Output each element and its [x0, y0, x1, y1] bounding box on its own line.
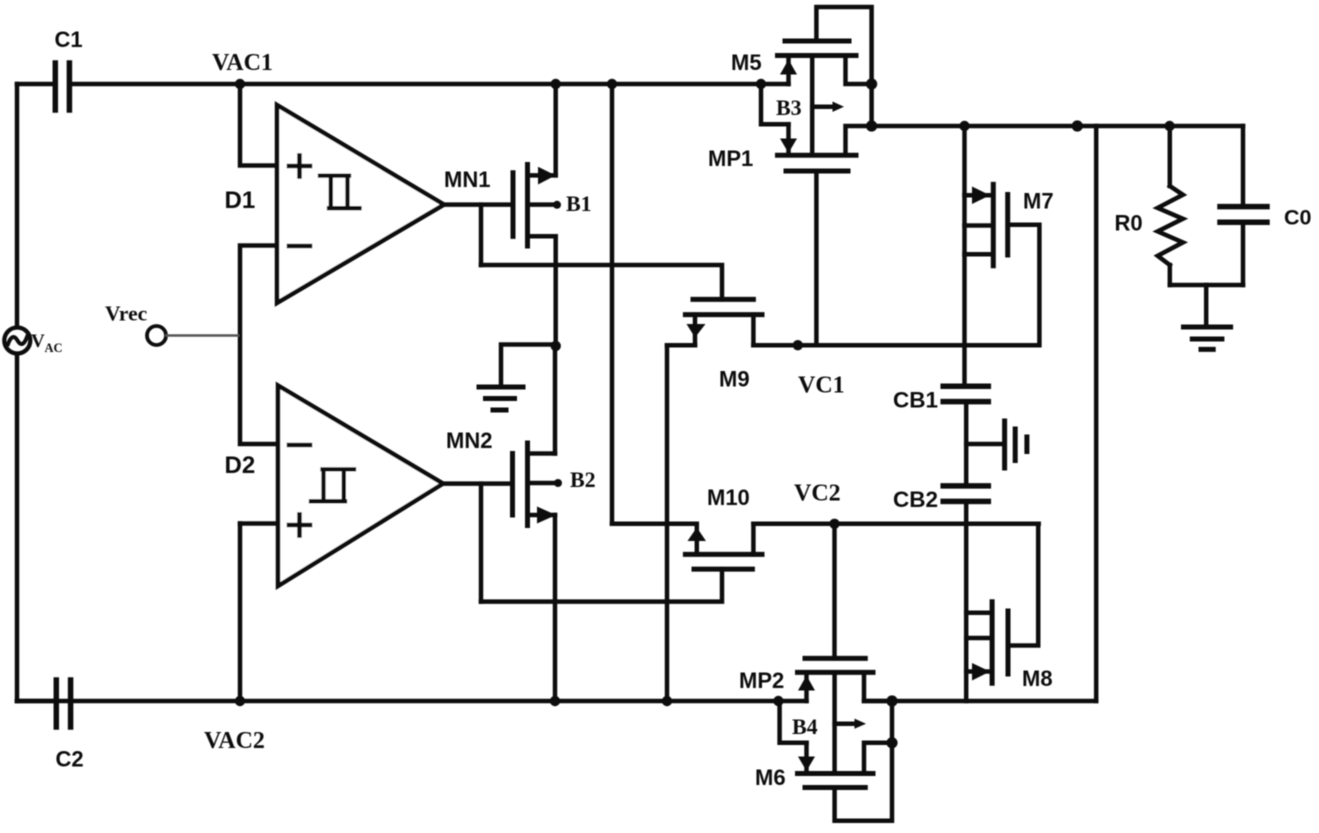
- B4 bulk line: [832, 672, 837, 773]
- transistor MP1 channel bar: [778, 153, 857, 158]
- node: rail at MN1 drain: [551, 79, 561, 89]
- D1 minus sign: [289, 244, 310, 249]
- AC source VAC circle: [4, 328, 30, 354]
- M6 gate loop: [835, 743, 892, 821]
- node VC2: [829, 519, 839, 529]
- svg-text:D2: D2: [225, 452, 256, 479]
- transistor M8 gate bar: [1006, 611, 1011, 674]
- node: rail at M10 column: [607, 79, 617, 89]
- label MN1: [444, 167, 490, 192]
- ground (R0/C0): [1184, 327, 1231, 349]
- wire: MN2 drain up to ground node: [553, 346, 558, 454]
- svg-text:C2: C2: [56, 747, 84, 772]
- label R0: [1115, 211, 1143, 236]
- wire: CB2 down to VAC2 rail: [964, 501, 969, 701]
- label B1: [566, 191, 592, 216]
- svg-text:C0: C0: [1284, 206, 1312, 230]
- svg-text:D1: D1: [225, 187, 256, 214]
- svg-text:M7: M7: [1023, 189, 1054, 214]
- M7 arrow (right): [972, 187, 990, 205]
- M10 right stub: [751, 524, 756, 555]
- transistor M10 gate bar: [694, 567, 752, 572]
- wire: VAC2 rail (right section): [864, 699, 1096, 704]
- M5 gate loop to output node: [816, 7, 871, 126]
- wire: gate branch vertical from D1 output: [479, 205, 484, 265]
- MP2 right stub: [864, 672, 892, 701]
- node VC1: [793, 340, 803, 350]
- label MP2: [739, 668, 784, 693]
- M9 right stub: [751, 315, 756, 346]
- wire: MP2 gate feed from VC2: [832, 524, 837, 659]
- transistor MN2 channel bar: [525, 443, 530, 526]
- MP2 arrow (up): [798, 676, 815, 691]
- wire: C0 bottom lead: [1241, 222, 1246, 285]
- svg-text:CB2: CB2: [893, 487, 938, 512]
- MN2 drain stub: [528, 451, 556, 456]
- svg-text:M6: M6: [755, 765, 786, 790]
- M5 left stub: [786, 59, 791, 84]
- svg-text:MN2: MN2: [446, 428, 492, 453]
- MN1 source stub: [528, 234, 556, 239]
- AC source sine symbol: [8, 337, 27, 344]
- MN1 drain arrow: [538, 167, 556, 185]
- svg-text:CB1: CB1: [893, 387, 938, 412]
- wire: ground branch: [501, 345, 556, 387]
- label D1: [225, 187, 256, 214]
- wire: gate branch vertical from D2 output: [479, 484, 484, 602]
- transistor M10 channel bar: [685, 552, 762, 557]
- M10 left stub: [695, 527, 700, 554]
- label D2: [225, 452, 256, 479]
- svg-text:VAC1: VAC1: [212, 50, 273, 76]
- wire: VAC2 rail (left section): [17, 699, 807, 704]
- transistor MP2 channel bar: [798, 670, 874, 675]
- M6 right stub: [864, 743, 892, 774]
- label MP1: [708, 146, 753, 171]
- transistor MP2 gate bar: [805, 656, 865, 661]
- capacitor C1: [55, 63, 69, 110]
- svg-text:VAC2: VAC2: [204, 728, 265, 754]
- svg-text:C1: C1: [55, 27, 83, 52]
- label VAC2: [204, 728, 265, 754]
- node: MN1 source / ground junction: [551, 341, 561, 351]
- D1 plus sign: [289, 156, 310, 177]
- wire: left loop vertical top (C1 side): [15, 84, 20, 327]
- wire: R0 bottom lead: [1168, 265, 1173, 285]
- wire: reference rail down to D2 plus input: [238, 524, 243, 702]
- wire: C0 top lead: [1241, 126, 1246, 207]
- MN2 bulk stub B2: [528, 481, 558, 486]
- label Vrec: [105, 302, 147, 326]
- label VAC (source): [31, 331, 63, 355]
- svg-text:MN1: MN1: [444, 167, 490, 192]
- comparator D1: [277, 105, 444, 303]
- node: rail at M7 column: [959, 121, 969, 131]
- M5 right stub: [846, 56, 872, 85]
- wire: C1 left lead: [17, 82, 52, 87]
- capacitor CB1: [943, 386, 988, 401]
- node: rail at MN2 source: [550, 696, 560, 706]
- capacitor C0: [1220, 207, 1267, 223]
- B3 bulk line: [810, 56, 815, 156]
- label M5: [731, 50, 762, 75]
- MP1 arrow (down): [780, 139, 797, 154]
- transistor MP1 gate bar: [786, 169, 848, 174]
- wire: M9 left stub to x667 vertical: [667, 343, 695, 348]
- label CB1: [893, 387, 938, 412]
- M7 drain stub: [965, 193, 992, 198]
- D1 hysteresis symbol: [320, 176, 360, 209]
- label C1: [55, 27, 83, 52]
- transistor M5 channel bar: [778, 53, 857, 58]
- wire: CB1 to CB2 vertical: [964, 402, 969, 486]
- wire: branch to M9 gate: [481, 265, 722, 299]
- D2 plus sign: [289, 515, 310, 536]
- transistor MN1 channel bar: [525, 165, 530, 247]
- svg-text:B2: B2: [570, 467, 596, 492]
- resistor R0: [1158, 186, 1183, 265]
- svg-text:V: V: [31, 331, 45, 352]
- label M6: [755, 765, 786, 790]
- node B2 dot: [554, 479, 562, 487]
- capacitor C2: [56, 680, 70, 727]
- label M9: [719, 367, 750, 392]
- transistor M7 channel bar: [991, 184, 996, 265]
- wire: VC1 rail: [753, 343, 1038, 348]
- label M7: [1023, 189, 1054, 214]
- wire: MN1 source down to ground node: [553, 236, 558, 346]
- MN2 source stub: [528, 513, 556, 518]
- MP2 left stub: [804, 675, 809, 701]
- label VC2: [794, 481, 841, 507]
- svg-text:M9: M9: [719, 367, 750, 392]
- capacitor CB2: [943, 486, 988, 502]
- comparator D2: [278, 386, 443, 587]
- M6 left stub with down arrow: [804, 743, 809, 770]
- svg-text:MP1: MP1: [708, 146, 753, 171]
- wire: C1 to VAC1 node: [70, 82, 240, 87]
- small ground stub (sideways): [966, 442, 1004, 447]
- wire: M10 column vertical: [610, 84, 615, 524]
- wire: R0/C0 bottom join: [1170, 283, 1243, 288]
- svg-text:M10: M10: [707, 485, 750, 510]
- D2 hysteresis symbol: [311, 469, 354, 501]
- wire: M7 gate connect down to VC1: [1008, 225, 1040, 345]
- node: MP2 output: [886, 695, 897, 706]
- terminal Vrec: [147, 326, 166, 345]
- svg-text:B1: B1: [566, 191, 592, 216]
- wire: D1 output to MN1 gate: [444, 202, 513, 207]
- wire: branch to M10 gate: [481, 569, 722, 602]
- wire: M6 output vertical: [890, 701, 895, 743]
- B3 arrow dot: [833, 102, 845, 112]
- transistor M6 channel bar: [798, 771, 874, 776]
- wire: D2 output to MN2 gate: [443, 481, 513, 486]
- wire: M8 gate connect up to VC2: [1008, 524, 1038, 646]
- M5 source arrow (up): [780, 60, 797, 75]
- wire: output rail Vrec top: [872, 124, 1243, 129]
- M7 source stub: [965, 252, 992, 257]
- node: rail at R0: [1164, 121, 1174, 131]
- wire: VAC1 node drop to MP1: [761, 84, 789, 124]
- node B1 dot: [553, 201, 561, 209]
- wire: M10 drain wire from x612: [612, 522, 697, 527]
- node VAC1: [235, 79, 245, 89]
- wire: MP2 node drop to M6: [780, 701, 807, 743]
- node: rail at x667: [662, 696, 672, 706]
- svg-text:VC2: VC2: [794, 481, 841, 507]
- node: rail at MP2: [773, 696, 783, 706]
- label B4: [792, 714, 818, 739]
- node: rail at M5: [756, 79, 766, 89]
- D2 minus sign: [289, 443, 310, 448]
- wire: VAC1 node down to D1 plus input: [240, 84, 277, 166]
- svg-text:M8: M8: [1022, 666, 1053, 691]
- label M10: [707, 485, 750, 510]
- M9 source arrow (down): [687, 324, 706, 338]
- B4 arrow dot: [855, 719, 867, 729]
- svg-text:MP2: MP2: [739, 668, 784, 693]
- transistor M6 gate bar: [805, 785, 865, 790]
- transistor M9 channel bar: [685, 312, 762, 317]
- wire: M7 column vertical (rail to CB1): [962, 126, 967, 386]
- wire: MN1 drain up to VAC1 rail: [553, 84, 558, 175]
- wire: Vrec to reference rail: [167, 334, 239, 337]
- wire: VAC1 rail: [240, 82, 789, 87]
- B3 bulk stub with arrow: [812, 104, 834, 109]
- svg-text:AC: AC: [45, 341, 63, 355]
- label B3: [776, 95, 802, 120]
- wire: left loop vertical bottom (C2 side): [15, 354, 20, 701]
- ground (near MN1/MN2): [479, 387, 523, 410]
- wire: MN2 source down to VAC2 rail: [553, 515, 558, 701]
- label CB2: [893, 487, 938, 512]
- wire: x667 vertical to VAC2 rail: [665, 345, 670, 701]
- label VAC1: [212, 50, 273, 76]
- wire: ground stub (R0/C0): [1204, 285, 1209, 326]
- M8 arrow (right): [972, 663, 990, 681]
- small ground bars: [1005, 421, 1027, 468]
- wire: D1 minus input to reference rail: [240, 246, 278, 445]
- node: rail junction dot: [1072, 120, 1083, 131]
- transistor M8 channel bar: [990, 602, 995, 684]
- M9 left stub: [693, 315, 698, 346]
- node: M5 output: [866, 78, 877, 89]
- MN1 bulk stub B1: [528, 202, 557, 207]
- label C2: [56, 747, 84, 772]
- svg-text:B3: B3: [776, 95, 802, 120]
- MP1 left stub with down arrow: [786, 124, 791, 152]
- label VC1: [798, 373, 845, 399]
- node: M6 output: [886, 737, 897, 748]
- MN2 source arrow: [537, 507, 556, 524]
- node: MP1 output: [866, 120, 877, 131]
- wire: D2 plus input stub: [240, 521, 278, 526]
- MN1 drain stub: [528, 173, 556, 178]
- M6 arrow (down): [798, 757, 815, 772]
- M8 source stub: [966, 669, 990, 674]
- wire: right enclosure vertical: [1094, 126, 1099, 701]
- M10 drain arrow (up): [688, 528, 707, 542]
- MP1 right stub: [846, 126, 872, 155]
- transistor MN2 gate bar: [510, 454, 515, 516]
- svg-text:B4: B4: [792, 714, 818, 739]
- label C0: [1284, 206, 1312, 230]
- label MN2: [446, 428, 492, 453]
- wire: VC2 rail: [753, 522, 1038, 527]
- transistor M7 gate bar: [1005, 195, 1010, 256]
- label B2: [570, 467, 596, 492]
- M8 drain stub: [966, 611, 990, 616]
- label M8: [1022, 666, 1053, 691]
- transistor M9 gate bar: [693, 297, 753, 302]
- M8 bulk stub: [966, 636, 990, 641]
- wire: C2 left lead: [17, 699, 52, 704]
- M7 bulk stub: [965, 223, 992, 228]
- transistor MN1 gate bar: [511, 173, 516, 237]
- svg-text:R0: R0: [1115, 211, 1143, 236]
- wire: MP1 gate stub down to VC1: [814, 171, 819, 345]
- svg-text:Vrec: Vrec: [105, 302, 147, 326]
- transistor M5 gate bar: [785, 39, 849, 44]
- node: VAC2: [235, 696, 245, 706]
- svg-text:M5: M5: [731, 50, 762, 75]
- wire: R0 top lead: [1168, 126, 1173, 186]
- svg-text:VC1: VC1: [798, 373, 845, 399]
- B4 bulk stub with arrow: [835, 721, 856, 726]
